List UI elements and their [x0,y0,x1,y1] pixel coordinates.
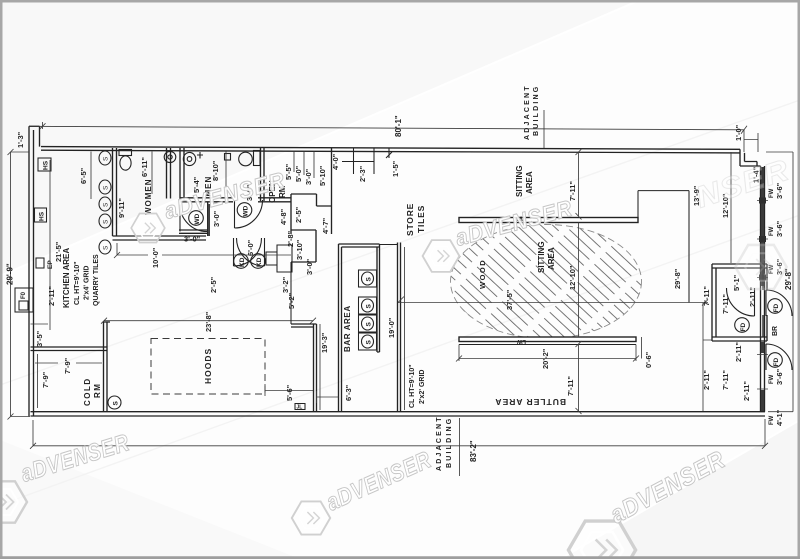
wall: women east [167,148,171,199]
faint diagonal band line mid [0,100,800,385]
watermark logo 1 [131,214,165,243]
svg-text:RM: RM [93,383,102,398]
svg-text:7'-11": 7'-11" [566,376,575,396]
JL symbol [295,404,305,411]
svg-text:21'-5": 21'-5" [54,241,63,262]
fixture: urinal tick [197,152,203,159]
svg-text:23'-8": 23'-8" [204,311,213,332]
dim 21'-5" kitchen [49,160,51,330]
svg-text:QUARRY TILES: QUARRY TILES [93,254,100,306]
watermark logo 6 [568,521,635,559]
wall: men west [180,148,184,201]
svg-text:AREA: AREA [525,171,534,194]
svg-text:COLD: COLD [83,377,92,406]
svg-text:7'-9": 7'-9" [63,357,72,374]
bottom frame edge thicker [0,556,800,559]
watermark logo 4 [0,481,27,522]
wall: open rm south segment [258,198,291,202]
door: FD right upper arc [766,290,792,316]
fixture: men toilet [239,151,260,166]
svg-text:19'-3": 19'-3" [320,332,329,353]
fixture: women toilet [119,150,132,171]
wall: sitting step horizontal [638,190,689,192]
svg-text:BUILDING: BUILDING [446,417,453,468]
wall: bar counter inner [377,244,380,352]
symbol FD circle right lower [768,353,783,368]
svg-text:BUTLER AREA: BUTLER AREA [494,397,566,407]
kitchen S ovals column [99,151,111,254]
svg-text:S: S [366,340,373,345]
dimension: left 29'-9" line [8,149,31,420]
S letters in ovals [103,156,110,250]
svg-text:3'-5": 3'-5" [35,330,44,347]
dim 6'-11" [151,152,153,195]
dim 10'-0" corridor line [114,243,291,258]
bench LW upper [459,215,638,223]
svg-text:3'-0": 3'-0" [305,258,314,275]
door: BR inner FD arc [727,288,755,316]
svg-text:F0: F0 [21,291,27,299]
svg-text:7'-11": 7'-11" [721,294,730,314]
fixture: women basin [164,151,176,162]
svg-text:4'-7": 4'-7" [321,217,330,234]
svg-text:19'-0": 19'-0" [387,317,396,338]
svg-text:2'-11": 2'-11" [742,381,751,401]
wall: cold rm top (double) [31,347,108,351]
svg-text:2'-3": 2'-3" [358,165,367,182]
dimension: right 29'-8" outer [766,152,793,412]
wall: women west (double) [113,148,117,236]
svg-text:HS: HS [39,211,46,221]
svg-text:3'-6": 3'-6" [775,220,784,237]
fixture: men basin [183,152,195,165]
svg-text:2'-11": 2'-11" [47,286,56,306]
wall: top-right jog [740,149,761,166]
svg-text:0'-6": 0'-6" [644,351,653,368]
dim 6'-3" line [317,391,339,403]
wall: right window wall FW (double) [761,166,765,412]
svg-text:S: S [103,245,110,250]
svg-text:6'-0": 6'-0" [246,239,255,256]
svg-text:ADJACENT: ADJACENT [524,84,531,140]
svg-text:4'-8": 4'-8" [279,208,288,225]
svg-text:10'-0": 10'-0" [151,247,160,268]
watermark logo 2 [423,240,460,272]
diagonal white band edge bottom-right [560,420,800,559]
svg-text:3'-10": 3'-10" [295,239,304,260]
wall: men/open divider [261,148,265,201]
svg-text:6'-5": 6'-5" [79,167,88,184]
BR block outer wall [712,264,767,341]
diagonal light band bottom-right [560,420,800,559]
wall: corridor west stub [290,262,292,324]
svg-text:5'-5": 5'-5" [284,163,293,180]
svg-text:ADJACENT: ADJACENT [436,415,443,471]
dim 7'-9" h [35,362,102,364]
wall: bar west partition (double) [291,324,317,412]
svg-text:7'-11": 7'-11" [702,286,711,306]
wall: bar counter top (double) [339,244,380,247]
wall: cold rm east / kitchen wall (double) [104,322,111,412]
wall: wd room sill [179,230,208,233]
svg-text:8'-10": 8'-10" [211,160,220,181]
door: WD2 arc [235,200,263,228]
svg-text:FD: FD [773,358,780,367]
svg-text:STORE: STORE [405,203,415,236]
symbol WD2 circle [237,203,252,218]
svg-text:1'-5": 1'-5" [391,160,400,177]
dim 20'-2" line [456,345,639,362]
svg-text:29'-9": 29'-9" [6,263,15,285]
svg-text:2'-5": 2'-5" [209,276,218,293]
svg-text:6'-3": 6'-3" [344,384,353,401]
svg-text:CL HT=9'-10": CL HT=9'-10" [74,261,81,305]
svg-text:7'-11": 7'-11" [721,370,730,390]
symbol FD circle right upper [768,299,783,314]
svg-text:BUILDING: BUILDING [533,85,540,136]
wall: wd room east [208,202,210,236]
svg-text:S: S [366,277,373,282]
symbol WD1 circle [189,211,204,226]
dim 19'-0" line [404,247,406,410]
svg-text:BR: BR [772,326,779,336]
bar S box 4 [359,333,377,350]
svg-text:KD: KD [239,257,246,267]
dimension: top overall 80'-1" line [29,122,744,152]
svg-text:3'-0": 3'-0" [212,210,221,227]
symbol KD2 circle [251,254,266,269]
svg-text:4'-0": 4'-0" [331,153,340,170]
F0 exit box [15,288,33,312]
svg-text:9'-11": 9'-11" [117,198,126,218]
dim 0'-6" [641,337,643,359]
svg-text:2'x4' GRID: 2'x4' GRID [84,266,91,300]
svg-text:5'-10": 5'-10" [318,165,327,186]
closet boxes right of KD [266,245,292,272]
svg-text:S: S [113,401,120,406]
door: FD right lower arc [766,344,792,370]
svg-text:TILES: TILES [416,205,426,233]
dim chain top-mid rects [342,148,392,174]
svg-text:3'-0": 3'-0" [304,168,313,185]
dim 23'-8" kitchen line [101,318,316,324]
symbol FD circle inner [735,318,750,333]
svg-text:3'-0": 3'-0" [184,235,201,244]
svg-text:2'-5": 2'-5" [294,206,303,223]
wall: sitting east [688,191,690,303]
svg-text:AREA: AREA [547,247,556,270]
svg-text:S: S [103,202,110,207]
svg-text:KD: KD [256,257,263,267]
kitchen HS box 1 [38,158,51,171]
diagonal white band edge line top-left [0,0,640,276]
wall: restroom south (double) [113,236,207,240]
svg-text:CL HT=9'-10": CL HT=9'-10" [409,364,416,408]
svg-text:S: S [103,219,110,224]
svg-text:S: S [103,156,110,161]
window wall ticks [757,201,768,390]
dim 7'-9" v [37,354,39,408]
svg-text:3'-6": 3'-6" [775,368,784,385]
svg-text:JL: JL [297,405,303,411]
svg-text:2'-11": 2'-11" [702,370,711,390]
svg-text:HS: HS [43,160,50,170]
wall: bar counter west (double) [339,244,342,412]
window wall dark segments [761,167,764,411]
kitchen HS box 2 [35,208,47,222]
dim chain line left of BR [703,303,712,412]
dim 19'-3" line [319,324,321,410]
svg-text:3'-2": 3'-2" [281,276,290,293]
svg-text:80'-1": 80'-1" [394,115,403,137]
pilaster top-left corner [29,126,40,146]
svg-text:2'x2' GRID: 2'x2' GRID [419,370,426,404]
svg-text:20'-2": 20'-2" [541,348,550,369]
dim 3'-5" [31,323,49,325]
svg-text:FD: FD [773,304,780,313]
svg-text:SITTING: SITTING [515,165,524,197]
wood floor ellipse hatched [451,225,642,339]
property line bottom [459,418,461,476]
svg-text:2'-11": 2'-11" [734,342,743,362]
svg-text:2'-8": 2'-8" [286,230,295,247]
dimension: bottom 83'-2" line [30,419,768,449]
door: WD1 arc [180,205,207,232]
svg-text:12'-10": 12'-10" [568,265,577,290]
svg-text:5'-6": 5'-6" [285,384,294,401]
symbol KD1 circle [234,254,249,269]
svg-text:1'-0": 1'-0" [734,124,743,141]
svg-text:S: S [366,322,373,327]
svg-text:KITCHEN AREA: KITCHEN AREA [62,248,71,308]
property line top [543,110,545,148]
wall: corridor east (double) [398,243,401,412]
wall: building bottom (double) [31,412,766,416]
svg-text:SITTING: SITTING [537,241,546,273]
EP wall box [36,258,54,269]
wall: sitting step vertical [637,191,639,218]
long dim line across butler [398,297,708,306]
window junction boxes [759,198,766,204]
fixture: wall box men [225,154,231,161]
wall: building left (double) [29,126,34,416]
svg-text:BAR AREA: BAR AREA [343,305,352,352]
svg-text:5'-0": 5'-0" [294,165,303,182]
svg-text:LW: LW [517,338,526,344]
dim 7'-11" lower line [576,341,582,414]
svg-text:HOODS: HOODS [203,348,213,384]
svg-text:7'-9": 7'-9" [41,371,50,388]
S circle cold rm [108,396,121,409]
dim lines open rm [294,152,314,179]
watermark logo 5 [292,501,330,534]
faint diagonal band line lower [0,215,800,505]
svg-text:S: S [366,304,373,309]
wall: open rm east [331,148,333,234]
wall: building top (double line, slight slope) [41,147,740,153]
svg-text:FD: FD [740,323,747,332]
diagonal light band top-left [0,0,640,276]
HOODS dashed rect [151,339,265,395]
dim 6'-5" [90,152,92,200]
svg-text:29'-8": 29'-8" [673,268,682,289]
dim 8'-10" [225,152,227,195]
watermark logo 3 faint [735,245,786,289]
svg-text:1'-3": 1'-3" [16,131,25,148]
wall: open rm steps [291,194,332,262]
dim 12'-10" center line [578,223,580,338]
bar S box 1 [359,270,377,287]
bar S box 3 [359,315,377,332]
dim 12'-10" right line [730,152,732,263]
wall: bar top connector [380,244,399,246]
door: KD double arcs [234,238,265,266]
svg-text:6'-11": 6'-11" [140,157,149,177]
dim 5'-6" line [265,384,313,396]
svg-text:EP: EP [47,260,54,269]
svg-text:S: S [103,185,110,190]
wall: men south [180,198,233,202]
svg-text:83'-2": 83'-2" [469,440,478,462]
svg-text:WOOD: WOOD [478,259,487,289]
svg-text:WD: WD [243,205,250,216]
dim 7'-11" upper line [576,149,582,220]
bar S box 2 [359,297,377,314]
svg-text:37'-5": 37'-5" [505,289,514,310]
bench LW lower [459,337,636,345]
arrow ticks top dim [40,123,748,134]
dim detail 1'-0" top-right [744,133,758,152]
